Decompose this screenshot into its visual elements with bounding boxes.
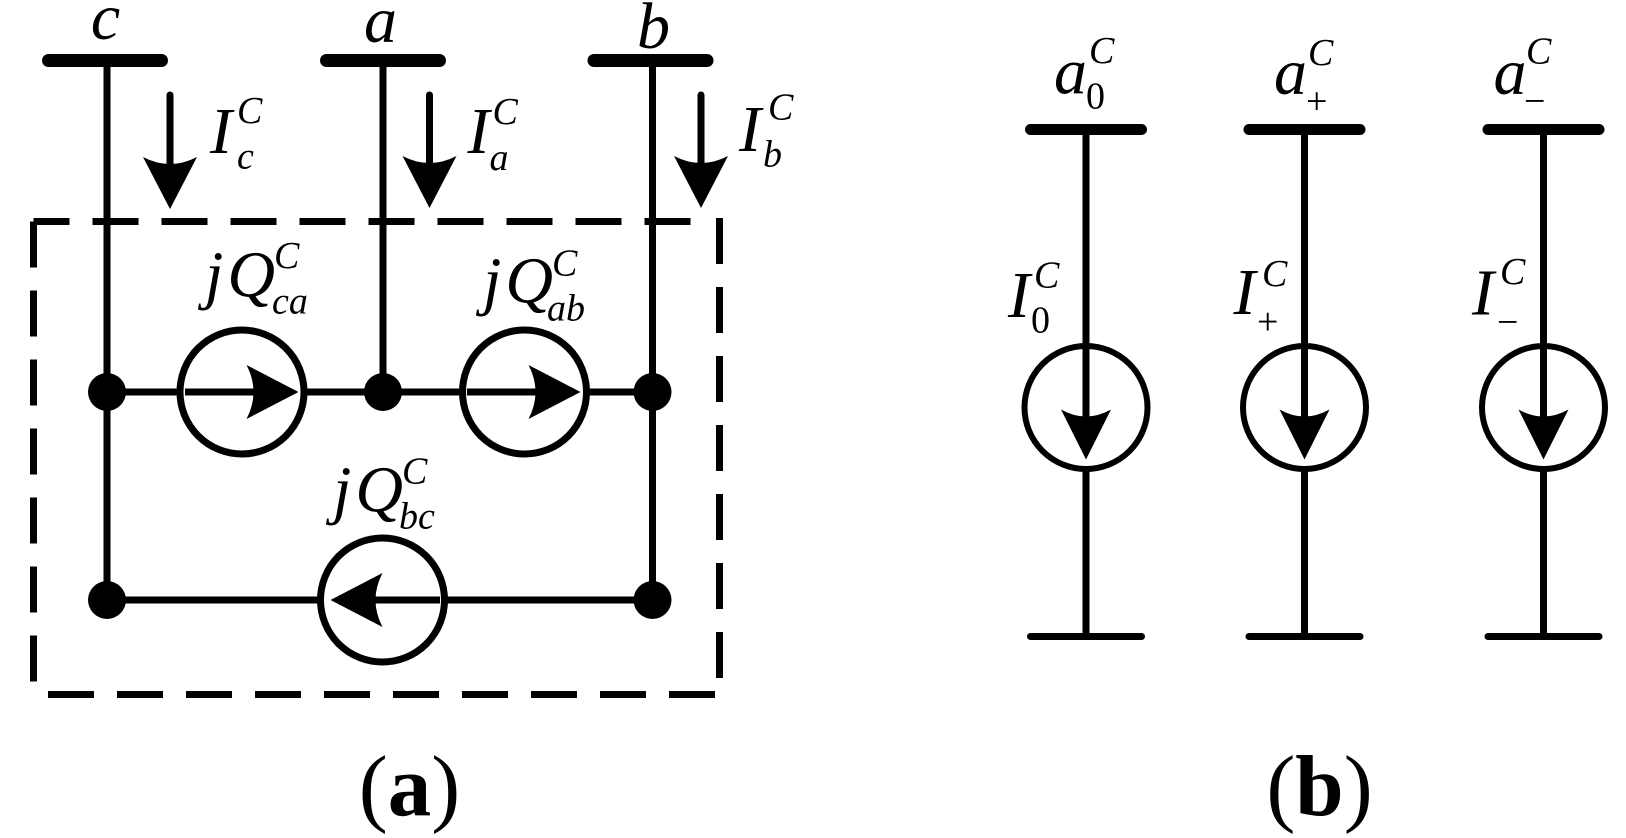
svg-text:I: I (1233, 256, 1259, 329)
svg-text:c: c (237, 136, 254, 178)
label a0^C (1054, 30, 1115, 118)
dashed box right edge (716, 218, 723, 695)
svg-text:C: C (402, 451, 428, 493)
wire: phase c vertical (104, 60, 111, 600)
svg-text:C: C (1526, 31, 1552, 73)
arrow of source I- (points down) (1519, 346, 1569, 460)
svg-text:C: C (768, 87, 794, 129)
wire: row2 horizontal b-c (107, 597, 653, 604)
label I-^C (1471, 251, 1526, 344)
terminal bar c (42, 54, 168, 67)
terminal bar a+ top (1244, 124, 1366, 135)
svg-text:a: a (364, 0, 397, 57)
svg-text:C: C (1034, 255, 1060, 297)
arrow of source jQab (points right) (467, 365, 581, 419)
arrow of source I0 (points down) (1061, 346, 1111, 460)
svg-text:b: b (637, 0, 670, 63)
arrow of source jQca (points right) (185, 365, 299, 419)
svg-text:+: + (1306, 81, 1327, 123)
svg-text:C: C (1089, 30, 1115, 72)
svg-text:I: I (209, 95, 235, 168)
node c-row2 (88, 581, 126, 619)
svg-text:jQ: jQ (325, 454, 403, 527)
svg-text:I: I (1471, 257, 1497, 330)
svg-text:C: C (1500, 251, 1526, 293)
node b-row1 (634, 373, 672, 411)
node b-row2 (634, 581, 672, 619)
label Ib^C (738, 87, 794, 176)
svg-text:ab: ab (547, 288, 585, 330)
svg-text:bc: bc (399, 496, 435, 538)
label I+^C (1233, 253, 1289, 343)
label jQab^C (475, 243, 585, 330)
terminal bar a (320, 54, 446, 67)
wire: row1 horizontal c-a-b (107, 389, 653, 396)
svg-text:I: I (1007, 259, 1033, 332)
current arrow Ic (143, 95, 197, 209)
svg-text:C: C (552, 243, 578, 285)
svg-text:a: a (1494, 36, 1527, 109)
wire: branch a- vertical (1540, 129, 1547, 634)
svg-text:C: C (237, 90, 263, 132)
current arrow Ib (674, 95, 728, 208)
current source circle jQbc (321, 538, 445, 662)
svg-text:−: − (1524, 81, 1545, 123)
svg-text:C: C (1262, 253, 1288, 295)
svg-text:C: C (1308, 32, 1334, 74)
label Ia^C (467, 91, 519, 179)
svg-text:jQ: jQ (197, 239, 275, 312)
arrow of source jQbc (points left) (331, 573, 441, 627)
svg-text:C: C (493, 91, 519, 133)
wire: phase a vertical (380, 60, 387, 392)
dashed box bottom edge (48, 691, 720, 698)
wire: branch a0 vertical (1083, 129, 1090, 634)
label a-^C (1494, 31, 1553, 123)
label I0^C (1007, 255, 1060, 342)
terminal bar a+ bottom (1246, 633, 1364, 640)
terminal bar b (588, 54, 714, 67)
dashed box left edge (30, 222, 37, 695)
svg-text:ca: ca (272, 281, 308, 323)
svg-text:a: a (490, 137, 509, 179)
label jQbc^C (325, 451, 435, 538)
svg-text:(a): (a) (359, 738, 460, 835)
terminal bar a0 top (1025, 124, 1147, 135)
svg-text:−: − (1497, 302, 1518, 344)
svg-text:(b): (b) (1266, 738, 1372, 835)
svg-text:a: a (1054, 36, 1087, 109)
svg-text:jQ: jQ (475, 245, 553, 318)
arrow of source I+ (points down) (1280, 346, 1330, 460)
terminal bar a- top (1483, 124, 1605, 135)
svg-text:0: 0 (1031, 300, 1050, 342)
svg-text:0: 0 (1086, 76, 1105, 118)
svg-text:c: c (91, 0, 120, 54)
terminal bar a- bottom (1485, 633, 1603, 640)
label Ic^C (209, 90, 263, 178)
label jQca^C (197, 235, 308, 323)
current arrow Ia (403, 95, 457, 208)
svg-text:+: + (1257, 301, 1278, 343)
current source circle I- (1482, 346, 1605, 469)
current source circle I0 (1025, 346, 1148, 469)
svg-text:I: I (738, 93, 764, 166)
label a+^C (1274, 32, 1334, 123)
current source circle jQab (463, 330, 587, 454)
current source circle I+ (1243, 346, 1366, 469)
svg-text:C: C (274, 235, 300, 277)
wire: phase b vertical (649, 60, 656, 600)
current source circle jQca (180, 330, 304, 454)
node a-row1 (364, 373, 402, 411)
terminal bar a0 bottom (1027, 633, 1145, 640)
node c-row1 (88, 373, 126, 411)
svg-text:b: b (763, 134, 782, 176)
svg-text:a: a (1274, 36, 1307, 109)
dashed box top edge (34, 218, 701, 225)
wire: branch a+ vertical (1301, 129, 1308, 634)
